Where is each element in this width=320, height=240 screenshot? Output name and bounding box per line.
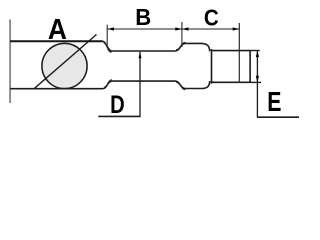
thread line / C extension line [238, 23, 240, 82]
wire bottom profile of beam [10, 81, 250, 89]
dimension line E vertical [256, 51, 258, 118]
fillet doubling strokes [104, 42, 186, 89]
dimension line C [182, 28, 239, 30]
svg-text:E: E [267, 86, 281, 117]
arrow D up [139, 52, 142, 58]
arrow B right [175, 27, 182, 30]
D label underline [98, 115, 140, 117]
svg-text:D: D [110, 91, 125, 119]
svg-text:C: C [204, 5, 219, 31]
shoulder face [211, 49, 213, 84]
B/C shared extension line [181, 22, 183, 47]
svg-text:A: A [48, 14, 67, 46]
dimension line B [107, 28, 181, 30]
arrow E down [256, 76, 259, 83]
diagonal slash through circle [35, 35, 97, 89]
B extension line left [106, 25, 108, 46]
wire top profile of beam [10, 40, 102, 42]
arrow C right [233, 27, 240, 30]
dimension line D vertical [139, 52, 141, 117]
stud end face [249, 50, 251, 83]
arrow E up [256, 51, 259, 58]
node left break edge (gray) [9, 20, 11, 104]
hole circle (flexure), gray filled [42, 43, 87, 88]
E label underline [257, 116, 299, 118]
E extension top [250, 50, 260, 52]
arrow B left [107, 27, 114, 30]
svg-text:B: B [135, 4, 151, 30]
E extension bottom [250, 81, 261, 83]
arrow C left [182, 27, 189, 30]
